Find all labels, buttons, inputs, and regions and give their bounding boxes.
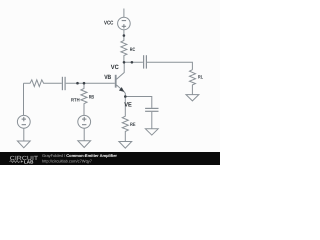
svg-text:VCC: VCC: [104, 20, 113, 26]
svg-text:VC: VC: [111, 64, 119, 71]
svg-text:RTH: RTH: [71, 97, 80, 103]
svg-text:GrayFolded / Common-Emitter Am: GrayFolded / Common-Emitter Amplifier: [42, 153, 117, 158]
svg-text:VE: VE: [124, 102, 132, 109]
svg-text:RC: RC: [130, 47, 136, 53]
svg-text:RE: RE: [130, 122, 136, 128]
svg-text:http://circuitlab.com/c7Wqy7: http://circuitlab.com/c7Wqy7: [42, 158, 93, 163]
svg-text:RL: RL: [198, 74, 203, 80]
svg-text:VB: VB: [104, 74, 111, 81]
svg-text:RB: RB: [89, 95, 95, 101]
svg-text:LAB: LAB: [24, 159, 34, 164]
